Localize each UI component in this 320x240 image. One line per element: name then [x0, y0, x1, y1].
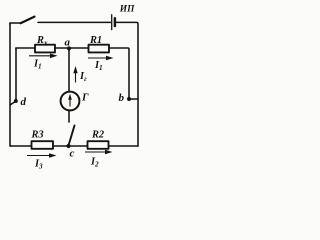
- wire bottom row: [10, 145, 138, 147]
- wire left rail: [10, 23, 11, 146]
- node d junction dot: [14, 99, 18, 103]
- current arrow Ig (galvanometer branch): [75, 72, 77, 83]
- wire node b to right rail: [129, 98, 138, 100]
- current arrow I3: [27, 155, 51, 157]
- wire galvanometer to switch gap: [68, 110, 70, 122]
- switch K blade: [21, 17, 35, 24]
- wire left inner vertical to node d: [10, 48, 16, 105]
- galvanometer needle arrow: [69, 98, 71, 107]
- battery ИП long plate: [111, 15, 113, 30]
- svg-text:R1: R1: [89, 35, 102, 46]
- svg-text:b: b: [119, 92, 125, 104]
- wire second row left (d to Rx to a): [16, 48, 88, 49]
- resistor R1 box: [89, 45, 110, 53]
- svg-text:d: d: [21, 96, 27, 108]
- wire second row right (R1 to corner): [109, 48, 129, 99]
- wire node a down to galvanometer: [68, 48, 70, 92]
- current arrow I2: [85, 151, 107, 153]
- resistor R2 box: [88, 141, 109, 149]
- switch blade in galvanometer branch: [69, 126, 75, 146]
- svg-text:c: c: [70, 148, 75, 160]
- galvanometer U circle: [61, 92, 80, 111]
- svg-text:R2: R2: [91, 130, 104, 141]
- node c junction dot: [66, 144, 70, 148]
- svg-text:ИП: ИП: [119, 4, 135, 14]
- node b junction dot: [127, 97, 131, 101]
- svg-text:a: a: [65, 37, 71, 49]
- wire top-left segment: [10, 23, 21, 24]
- svg-text:R3: R3: [31, 130, 44, 141]
- resistor R3 box: [32, 141, 54, 149]
- battery ИП short plate: [114, 18, 117, 26]
- svg-text:Г: Г: [81, 91, 89, 103]
- resistor Rx box: [35, 45, 55, 53]
- current arrow I1 right: [88, 57, 108, 59]
- node a junction dot: [67, 46, 71, 50]
- wire battery to top-right corner and right rail: [117, 22, 138, 146]
- wire top-right segment to battery: [38, 21, 111, 23]
- current arrow I1 left: [29, 55, 52, 57]
